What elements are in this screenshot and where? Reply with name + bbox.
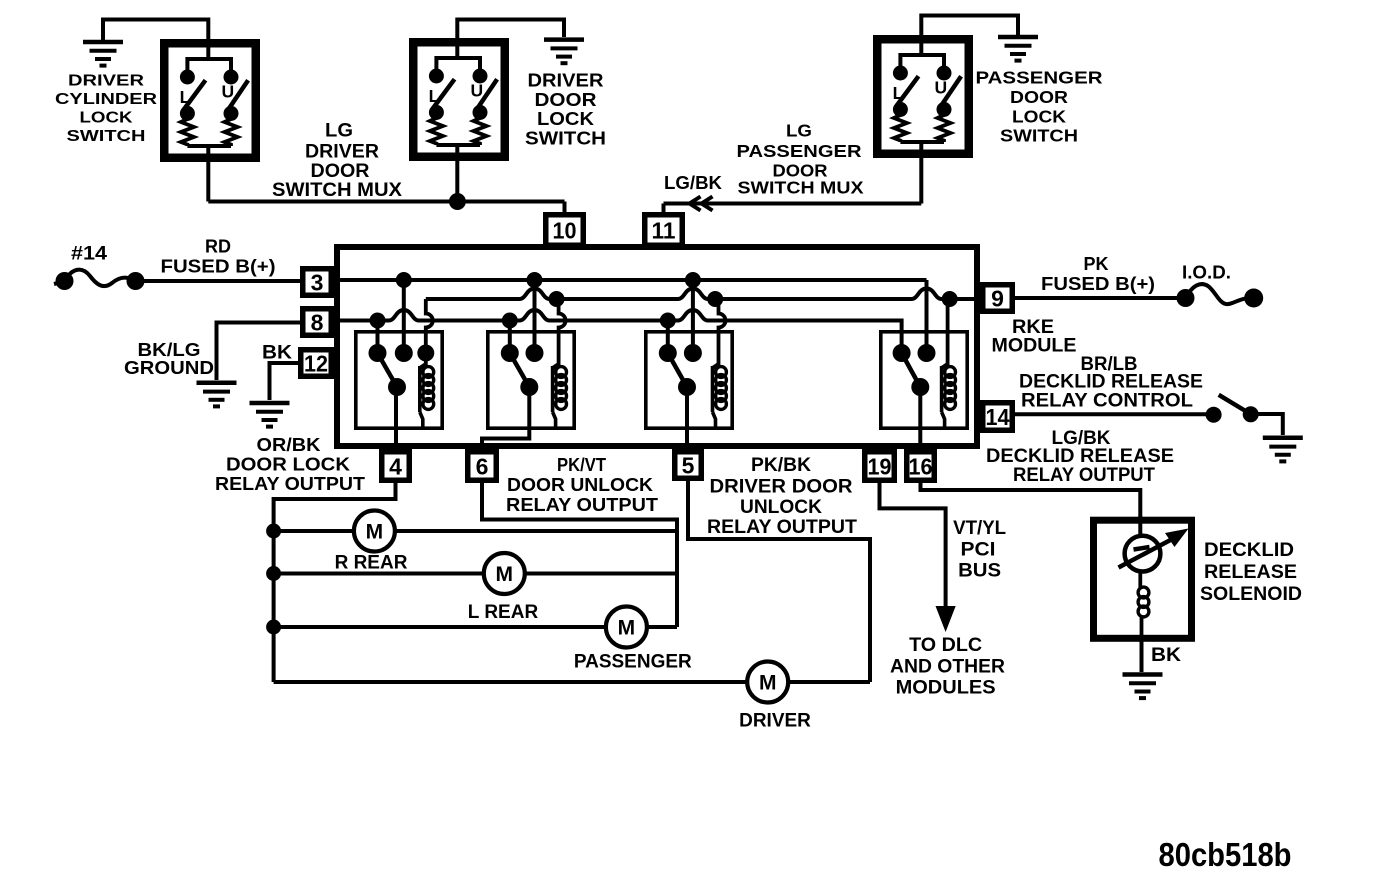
svg-text:BK/LG: BK/LG	[138, 340, 201, 360]
pin 5	[675, 452, 702, 479]
decklid release solenoid box	[1094, 520, 1192, 638]
wire pin 4 to motor bus (left)	[274, 483, 396, 682]
pin 16	[907, 452, 935, 481]
relay K3 driver door unlock relay	[646, 280, 732, 430]
junction bus3-relay3	[660, 313, 676, 329]
bus from pin 8 (lower bus)	[334, 310, 902, 353]
svg-text:DOOR: DOOR	[535, 89, 597, 110]
junction bus2-relay4 coil	[942, 291, 958, 307]
svg-text:DRIVER: DRIVER	[68, 73, 144, 90]
wire S3 top to ground	[921, 16, 1018, 40]
motor M2 L REAR	[468, 553, 539, 623]
svg-text:10: 10	[553, 218, 577, 244]
fusible link #14 (dot-squiggle-dot)	[54, 270, 145, 290]
motor M1 R REAR	[335, 511, 408, 574]
svg-text:PK/BK: PK/BK	[751, 455, 811, 476]
relay K2 door unlock relay	[488, 280, 574, 430]
pin 14	[983, 403, 1013, 431]
svg-text:9: 9	[991, 286, 1004, 312]
wire driver motor line	[274, 680, 870, 684]
label PK FUSED B(+)	[1041, 254, 1155, 294]
svg-text:DECKLID RELEASE: DECKLID RELEASE	[1019, 371, 1203, 392]
motor M3 PASSENGER	[574, 607, 692, 673]
wire from pin 14 to decklid release switch	[1014, 412, 1214, 416]
svg-text:I.O.D.: I.O.D.	[1182, 263, 1231, 283]
svg-text:RELAY OUTPUT: RELAY OUTPUT	[707, 517, 857, 538]
splice arrows on passenger mux wire	[690, 197, 713, 211]
svg-text:M: M	[759, 672, 777, 695]
pin 3	[303, 269, 332, 296]
bus B+ from pin 3 (top bus)	[334, 280, 927, 353]
label DRIVER DOOR LOCK SWITCH	[525, 70, 606, 149]
wire pin 6 to motor bus (right)	[482, 483, 677, 627]
svg-text:LOCK: LOCK	[1012, 106, 1066, 126]
label RKE MODULE	[992, 316, 1077, 357]
wire L rear motor	[274, 572, 677, 576]
junction bus3-relay1	[370, 313, 386, 329]
bus from pin 9 (middle bus)	[426, 289, 977, 300]
svg-text:M: M	[618, 617, 636, 640]
arrow to DLC	[936, 606, 956, 632]
junction bus2-relay2 coil	[549, 291, 565, 307]
label PK/VT DOOR UNLOCK RELAY OUTPUT	[506, 454, 659, 515]
svg-text:M: M	[496, 563, 514, 586]
svg-text:DRIVER DOOR: DRIVER DOOR	[710, 477, 853, 498]
svg-text:#14: #14	[71, 244, 107, 265]
ground G6 (decklid release switch)	[1263, 438, 1303, 462]
relay K1 door lock relay	[356, 280, 442, 430]
label BR/LB DECKLID RELEASE RELAY CONTROL	[1019, 354, 1203, 411]
svg-text:BK: BK	[262, 343, 292, 364]
wire PK fused B(+) from pin 9	[1014, 296, 1186, 300]
junction L rear	[266, 566, 281, 581]
switch S1 driver cylinder lock switch (L/U contacts with resistors)	[164, 43, 256, 162]
label RD FUSED B(+)	[161, 237, 276, 277]
junction bus1-relay1	[396, 272, 412, 288]
svg-text:PASSENGER: PASSENGER	[574, 651, 692, 672]
pin 6	[468, 452, 497, 481]
pin 10	[546, 215, 584, 246]
svg-text:L REAR: L REAR	[468, 602, 539, 623]
svg-text:UNLOCK: UNLOCK	[740, 497, 822, 518]
svg-text:PCI: PCI	[961, 540, 996, 561]
svg-text:PASSENGER: PASSENGER	[737, 141, 862, 161]
label BK/LG GROUND	[124, 340, 214, 378]
svg-text:12: 12	[304, 351, 328, 377]
svg-text:U: U	[221, 81, 234, 101]
junction bus1-relay2	[527, 272, 543, 288]
wire LG passenger door switch mux (S3 to pin 11)	[664, 158, 922, 214]
wire VT/YL PCI bus from pin 19	[880, 483, 946, 608]
svg-text:TO DLC: TO DLC	[909, 635, 982, 656]
pin 4	[382, 452, 410, 481]
svg-text:RELAY CONTROL: RELAY CONTROL	[1021, 390, 1193, 411]
label DECKLID RELEASE SOLENOID	[1200, 539, 1302, 605]
svg-text:BUS: BUS	[958, 561, 1001, 582]
svg-text:R REAR: R REAR	[335, 553, 408, 574]
wire pin 5 to driver motor	[688, 481, 870, 682]
wire solenoid to ground	[1140, 638, 1144, 672]
wire LG/BK pin 16 to decklid release solenoid	[921, 483, 1141, 520]
junction bus3-relay2	[502, 313, 518, 329]
svg-text:DOOR UNLOCK: DOOR UNLOCK	[507, 474, 654, 495]
relay K4 decklid release relay	[881, 280, 967, 430]
ground G4 (BK/LG)	[197, 383, 237, 407]
svg-text:DOOR: DOOR	[1010, 87, 1068, 107]
svg-text:FUSED B(+): FUSED B(+)	[1041, 274, 1155, 294]
svg-text:4: 4	[389, 454, 402, 480]
label TO DLC AND OTHER MODULES	[890, 635, 1005, 699]
svg-text:LOCK: LOCK	[80, 109, 134, 126]
svg-text:DECKLID RELEASE: DECKLID RELEASE	[986, 446, 1174, 467]
switch S2 driver door lock switch (L/U contacts with resistors)	[413, 42, 505, 161]
svg-text:U: U	[934, 77, 947, 97]
pin 19	[865, 452, 895, 481]
switch S3 passenger door lock switch (L/U contacts with resistors)	[877, 39, 969, 158]
svg-text:CYLINDER: CYLINDER	[55, 91, 157, 108]
svg-text:MODULE: MODULE	[992, 335, 1077, 357]
label OR/BK DOOR LOCK RELAY OUTPUT	[215, 434, 366, 494]
svg-text:SWITCH MUX: SWITCH MUX	[272, 180, 402, 201]
wire passenger motor	[274, 625, 677, 629]
wire relay K1 output to pin 4	[394, 387, 398, 452]
wire LG driver door switch mux (S1/S2 to pin 10)	[208, 160, 564, 214]
svg-text:RELAY OUTPUT: RELAY OUTPUT	[1013, 465, 1155, 486]
svg-text:SOLENOID: SOLENOID	[1200, 583, 1302, 605]
label LG/BK DECKLID RELEASE RELAY OUTPUT	[986, 428, 1174, 486]
svg-text:GROUND: GROUND	[124, 358, 214, 378]
ground G1 (driver cylinder lock switch)	[83, 42, 123, 66]
svg-text:VT/YL: VT/YL	[953, 518, 1006, 539]
svg-text:14: 14	[986, 404, 1010, 430]
svg-text:BK: BK	[1151, 644, 1181, 666]
svg-text:SWITCH: SWITCH	[525, 127, 606, 148]
ground G7 (solenoid BK)	[1123, 675, 1163, 699]
wire S2 top to ground	[457, 20, 564, 43]
svg-text:PK: PK	[1084, 254, 1109, 274]
wire relay K4 output to pin 16	[918, 387, 922, 452]
junction R rear	[266, 524, 281, 539]
ground G3 (passenger door lock switch)	[998, 37, 1038, 61]
svg-text:RELAY OUTPUT: RELAY OUTPUT	[506, 494, 659, 515]
wire relay K3 output to pin 5	[685, 387, 689, 452]
wire RD fused B(+) to pin 3	[136, 279, 302, 283]
svg-text:LG/BK: LG/BK	[664, 172, 723, 193]
svg-text:RELAY OUTPUT: RELAY OUTPUT	[215, 473, 366, 494]
wire S1 top to ground	[103, 20, 208, 44]
junction bus2-relay3 coil	[707, 291, 723, 307]
svg-text:DECKLID: DECKLID	[1204, 539, 1294, 561]
fusible link I.O.D. (dot-squiggle-dot)	[1177, 284, 1264, 307]
motor M4 DRIVER	[739, 662, 811, 732]
pin 9	[983, 285, 1013, 312]
label LG PASSENGER DOOR SWITCH MUX	[737, 121, 864, 198]
svg-text:PASSENGER: PASSENGER	[976, 68, 1103, 88]
junction bus1-relay3	[685, 272, 701, 288]
svg-text:8: 8	[311, 310, 324, 336]
svg-text:U: U	[470, 80, 483, 100]
junction S1/S2 mux	[449, 193, 466, 210]
svg-text:RD: RD	[205, 237, 231, 257]
wire switch to ground	[1251, 414, 1283, 435]
RKE module box	[337, 247, 977, 446]
wire R rear motor	[274, 529, 677, 533]
ground G2 (driver door lock switch)	[544, 40, 584, 64]
decklid release switch (open)	[1206, 395, 1259, 423]
svg-text:MODULES: MODULES	[896, 678, 996, 699]
svg-text:FUSED B(+): FUSED B(+)	[161, 257, 276, 277]
svg-text:OR/BK: OR/BK	[257, 434, 322, 455]
svg-text:AND OTHER: AND OTHER	[890, 657, 1005, 678]
svg-text:16: 16	[909, 454, 933, 480]
solenoid coil	[1138, 570, 1149, 641]
wire relay K2 output to pin 6	[482, 387, 529, 452]
label VT/YL PCI BUS	[953, 518, 1006, 582]
svg-text:LOCK: LOCK	[537, 108, 595, 129]
svg-text:DOOR LOCK: DOOR LOCK	[226, 454, 351, 475]
label DRIVER CYLINDER LOCK SWITCH	[55, 73, 157, 145]
svg-text:PK/VT: PK/VT	[557, 454, 607, 475]
ground G5 (BK)	[250, 403, 290, 427]
svg-text:RELEASE: RELEASE	[1204, 561, 1297, 583]
pin 11	[645, 215, 683, 246]
svg-text:SWITCH: SWITCH	[1000, 126, 1078, 146]
pin 12	[301, 350, 332, 377]
junction passenger	[266, 620, 281, 635]
svg-text:6: 6	[476, 454, 489, 480]
svg-text:M: M	[366, 521, 384, 544]
wire BK ground from pin 12	[270, 363, 300, 400]
svg-text:19: 19	[868, 454, 892, 480]
svg-text:80cb518b: 80cb518b	[1159, 836, 1292, 873]
solenoid actuator symbol (circle with arrow)	[1119, 516, 1189, 571]
label PK/BK DRIVER DOOR UNLOCK RELAY OUTPUT	[707, 455, 857, 538]
wire BK/LG ground from pin 8	[217, 323, 302, 381]
svg-text:5: 5	[682, 453, 695, 479]
label LG DRIVER DOOR SWITCH MUX	[272, 120, 402, 201]
svg-text:3: 3	[311, 270, 324, 296]
pin 8	[303, 309, 332, 336]
svg-text:11: 11	[652, 218, 676, 244]
svg-text:LG: LG	[786, 121, 812, 141]
svg-text:DRIVER: DRIVER	[528, 70, 604, 91]
svg-text:LG: LG	[325, 120, 353, 141]
svg-text:DRIVER: DRIVER	[305, 142, 379, 163]
svg-text:SWITCH: SWITCH	[67, 128, 146, 145]
svg-text:DRIVER: DRIVER	[739, 711, 811, 732]
label PASSENGER DOOR LOCK SWITCH	[976, 68, 1103, 146]
svg-text:SWITCH MUX: SWITCH MUX	[738, 178, 864, 198]
